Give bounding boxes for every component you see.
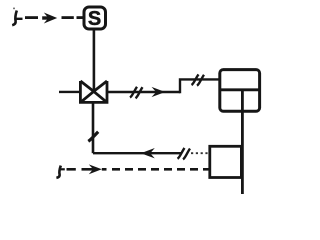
wire: jog up: [180, 79, 220, 93]
arrowhead on pilot line (pointing right): [89, 164, 102, 174]
dashed pilot line arrow segment: [82, 168, 96, 171]
wire: lower return run to small box: [93, 152, 181, 154]
line-start hook (top-left continuation squiggle): [12, 8, 22, 26]
cylinder B1 (small box, lower right): [210, 146, 242, 177]
dashed control line (dash 2): [62, 16, 74, 19]
arrowhead on return run (pointing left): [141, 148, 155, 158]
dashed pilot line (remaining dashes to small box): [112, 168, 210, 171]
valve V1 (bowtie with bottom seat): [80, 81, 107, 102]
actuator A1 stem inside lower half: [241, 90, 244, 111]
svg-text:S: S: [88, 8, 101, 30]
pipe break mark (single slash) on drop: [88, 132, 98, 142]
pipe break mark (double slash) on right run: [130, 87, 143, 98]
corner joint: [92, 152, 95, 153]
dashed control line to solenoid (dash 1): [25, 16, 38, 19]
wire: stem line down from actuator: [241, 111, 244, 194]
arrowhead on dashed control line: [42, 13, 57, 24]
faint continuation into small box: [191, 152, 210, 154]
dashed pilot line (dash 1): [67, 168, 76, 171]
actuator A1 divider: [220, 88, 260, 91]
dashed pilot line (dash after arrow): [102, 168, 107, 171]
dashed control line (dash 3 into solenoid box): [77, 16, 84, 19]
actuator A1 (large divided box): [220, 70, 260, 112]
wire: valve bottom drop: [92, 103, 95, 152]
pipe break mark (double slash) on return run: [178, 148, 191, 159]
line-start hook (bottom continuation squiggle): [56, 166, 64, 178]
pipe break mark (double slash) on upper run: [192, 74, 205, 85]
arrowhead on right run (pointing right): [152, 87, 166, 97]
wire: left inlet stub of valve: [59, 91, 80, 93]
wire: valve right outlet run: [107, 91, 180, 93]
solenoid S1 box: [84, 7, 106, 29]
wire: solenoid to valve center: [93, 30, 96, 92]
